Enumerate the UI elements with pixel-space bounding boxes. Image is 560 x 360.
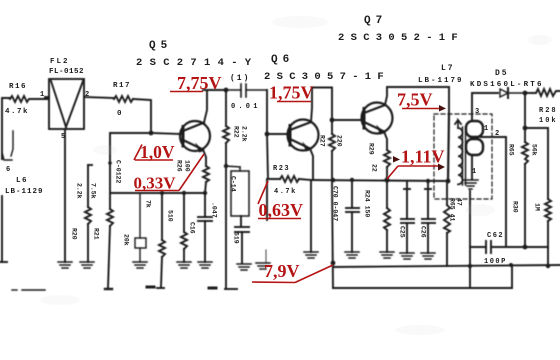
svg-text:C25: C25 xyxy=(399,226,406,238)
node Q6 base junction xyxy=(265,132,270,137)
svg-text:C-14: C-14 xyxy=(230,176,237,192)
svg-text:KDS160L-RT6: KDS160L-RT6 xyxy=(470,81,544,89)
wire node B to Q5 base xyxy=(151,133,181,134)
resistor R26 emitter xyxy=(203,166,209,193)
ceramic filter FL2 xyxy=(45,79,84,129)
svg-text:.047: .047 xyxy=(211,202,218,218)
svg-text:2SC2714-Y: 2SC2714-Y xyxy=(136,57,258,69)
wire node B left drop xyxy=(110,133,151,209)
svg-text:Q7: Q7 xyxy=(364,15,387,27)
node tap junction xyxy=(108,161,112,165)
wire Q6 base column down xyxy=(266,179,267,262)
wire R23 branch xyxy=(267,134,280,179)
svg-text:2: 2 xyxy=(495,130,499,138)
svg-text:1: 1 xyxy=(472,168,476,176)
svg-text:100P: 100P xyxy=(484,258,507,266)
wire to Q7 base xyxy=(332,119,363,121)
return rail lower xyxy=(333,266,512,288)
svg-text:R27: R27 xyxy=(319,135,326,147)
svg-text:510: 510 xyxy=(167,210,174,222)
svg-text:2.2k: 2.2k xyxy=(241,126,248,142)
svg-text:2: 2 xyxy=(85,91,89,99)
svg-text:R65 41: R65 41 xyxy=(449,198,456,222)
ground L7 pin1 xyxy=(463,180,478,189)
svg-text:3: 3 xyxy=(475,108,479,116)
svg-text:7k: 7k xyxy=(145,200,152,208)
resistor R17 xyxy=(114,96,133,102)
inductor L7 secondary winding xyxy=(466,121,483,155)
svg-text:6: 6 xyxy=(6,166,10,174)
wire L7 primary feed xyxy=(448,114,449,180)
node rail junctions xyxy=(331,261,336,266)
supply rail 7.9V xyxy=(333,265,560,267)
svg-text:0: 0 xyxy=(117,110,122,118)
svg-text:R24 150: R24 150 xyxy=(364,190,371,217)
svg-text:Q5: Q5 xyxy=(149,40,172,52)
wire input left xyxy=(2,98,10,159)
svg-text:5: 5 xyxy=(61,133,65,141)
resistor R32 56k xyxy=(522,128,528,247)
wire filter pin2 to R17 xyxy=(84,97,114,98)
node 1.75V annotation xyxy=(269,83,314,103)
svg-text:7,75V: 7,75V xyxy=(177,73,222,93)
capacitor C20 branch xyxy=(346,181,359,252)
svg-text:C-0122: C-0122 xyxy=(115,160,122,184)
wire stub left dashed xyxy=(2,131,13,160)
svg-text:4.7k: 4.7k xyxy=(5,108,29,116)
node 7.75V annotation xyxy=(170,73,222,93)
ground C20 xyxy=(345,252,359,258)
node 7.9V annotation xyxy=(252,261,333,283)
capacitor C62 xyxy=(470,241,548,253)
wire Q7 emitter xyxy=(384,132,387,151)
svg-text:0.01: 0.01 xyxy=(231,103,261,111)
bias wire y193 xyxy=(110,192,206,194)
wire C20 column top xyxy=(333,180,335,181)
svg-text:R65: R65 xyxy=(508,144,515,156)
svg-text:FL2: FL2 xyxy=(50,58,70,66)
svg-text:R21: R21 xyxy=(93,228,100,240)
transistor Q5 xyxy=(180,121,210,153)
svg-text:220: 220 xyxy=(336,135,343,147)
svg-text:1,11V: 1,11V xyxy=(401,147,445,167)
ground FL2 xyxy=(58,262,72,268)
wire Q5 emitter xyxy=(203,150,206,167)
wire left edge lower xyxy=(0,196,7,262)
ground R25 xyxy=(177,262,191,268)
node Q6-Q7 coupling xyxy=(330,118,335,123)
svg-text:1: 1 xyxy=(484,125,488,133)
svg-text:C16: C16 xyxy=(189,222,196,234)
resistor mid branch xyxy=(157,193,165,288)
svg-text:LB-1129: LB-1129 xyxy=(5,188,44,196)
svg-text:Q6: Q6 xyxy=(271,54,294,66)
svg-text:0,63V: 0,63V xyxy=(259,200,304,220)
node y193 junctions xyxy=(160,191,164,195)
wire R17 to node B xyxy=(133,99,151,132)
inductor L7 primary winding xyxy=(455,120,463,184)
wire C11 to Q6 base drop xyxy=(266,90,268,133)
node 1.0V annotation xyxy=(134,142,175,162)
wire L7 pin3 to diode xyxy=(472,93,498,121)
svg-text:2SC3052-1F: 2SC3052-1F xyxy=(338,32,464,44)
capacitor C16 branch xyxy=(198,193,212,262)
wire stub tick A xyxy=(147,286,154,289)
wire D5 node down xyxy=(524,93,526,128)
ground Q6 emitter xyxy=(304,252,318,258)
ground trimmer xyxy=(133,262,147,268)
wire Q6 collector xyxy=(311,88,332,123)
node divider junction xyxy=(523,126,528,131)
capacitor C11 xyxy=(226,84,267,97)
svg-text:47: 47 xyxy=(456,198,463,206)
svg-text:2SC3057-1F: 2SC3057-1F xyxy=(264,71,390,83)
svg-text:R30: R30 xyxy=(512,201,519,213)
svg-text:4.7k: 4.7k xyxy=(274,188,297,196)
svg-text:7.5k: 7.5k xyxy=(90,183,97,199)
svg-text:R28: R28 xyxy=(539,107,558,115)
node rail dots xyxy=(350,178,354,182)
svg-text:20k: 20k xyxy=(123,234,130,246)
trimmer box branch xyxy=(135,193,146,262)
resistor R22 xyxy=(223,90,229,166)
red annotations xyxy=(134,73,447,283)
black schematic ink xyxy=(0,79,560,290)
capacitor C26 branch xyxy=(422,181,435,253)
node C11 junction xyxy=(224,88,229,93)
svg-text:LB-1179: LB-1179 xyxy=(418,77,464,85)
capacitor C19 xyxy=(235,216,249,263)
resistor R23 xyxy=(280,176,311,182)
wire L7 pin2 xyxy=(481,137,506,247)
wire emitter ground branch xyxy=(310,181,312,252)
svg-text:R29: R29 xyxy=(368,143,375,155)
svg-text:10k: 10k xyxy=(539,117,558,125)
transformer L7 core xyxy=(463,127,466,185)
resistor R25 branch xyxy=(181,193,187,262)
svg-text:R20: R20 xyxy=(71,228,78,240)
ground R20 xyxy=(80,262,94,268)
black text labels xyxy=(5,15,558,266)
capacitor C25 branch xyxy=(401,181,414,253)
svg-text:0,33V: 0,33V xyxy=(134,174,177,193)
svg-text:C62: C62 xyxy=(487,232,504,240)
wire Q6 emitter xyxy=(310,149,313,181)
resistor R29 xyxy=(384,150,390,179)
svg-text:56k: 56k xyxy=(531,144,538,156)
wire stub tick B xyxy=(209,287,216,290)
svg-text:7,5V: 7,5V xyxy=(397,90,433,110)
node D5 junction xyxy=(523,91,528,96)
ground C19 xyxy=(237,264,251,270)
svg-text:C70 0-047: C70 0-047 xyxy=(332,186,339,221)
wire branch to R30 xyxy=(525,128,548,199)
wire R22 down long xyxy=(225,166,237,289)
svg-text:1M: 1M xyxy=(534,203,541,211)
svg-text:C26: C26 xyxy=(420,226,427,238)
wire Q7 collector xyxy=(385,87,449,114)
resistor R28 xyxy=(525,89,560,96)
node R22 bottom junction xyxy=(224,164,228,168)
node 0.63V annotation xyxy=(258,181,303,220)
node 7.5V annotation xyxy=(397,90,446,112)
svg-text:R26: R26 xyxy=(176,160,183,172)
transistor Q7 xyxy=(362,103,393,135)
wire to Q6 base xyxy=(267,133,288,135)
wire top rail Q5 xyxy=(203,89,226,91)
wire Q5 collector xyxy=(204,91,207,123)
node C62 junction xyxy=(523,245,528,250)
svg-text:519: 519 xyxy=(233,232,240,244)
transistor Q6 xyxy=(288,120,319,152)
svg-text:R23: R23 xyxy=(273,165,290,173)
svg-text:R22: R22 xyxy=(233,126,240,138)
ground C16 xyxy=(198,262,212,268)
svg-text:L7: L7 xyxy=(441,64,455,73)
svg-text:100: 100 xyxy=(184,160,191,172)
diode D5 xyxy=(500,88,524,98)
transformer L7 dashed box xyxy=(434,114,492,199)
node Q7 emitter junction xyxy=(384,177,389,182)
ground C26 xyxy=(421,253,435,259)
resistor R27 xyxy=(329,120,335,179)
svg-text:(1): (1) xyxy=(230,74,250,83)
wire 7.9V feed column xyxy=(332,181,333,288)
resistor R30 xyxy=(545,199,551,266)
svg-text:7,9V: 7,9V xyxy=(264,261,300,281)
wire L7 pin1 down xyxy=(470,156,472,288)
svg-text:L6: L6 xyxy=(16,177,28,185)
resistor R21 branch xyxy=(105,209,113,289)
filter FL2 pin3 wire xyxy=(64,129,66,262)
resistor R24 branch xyxy=(384,181,390,252)
ground C25 xyxy=(400,253,414,259)
svg-text:FL-0152: FL-0152 xyxy=(49,68,84,76)
node 1.11V annotation xyxy=(387,147,445,180)
svg-text:1,75V: 1,75V xyxy=(269,83,314,103)
svg-text:D5: D5 xyxy=(495,69,509,78)
resistor R20 branch xyxy=(85,165,92,262)
svg-text:R17: R17 xyxy=(113,82,131,90)
svg-text:R16: R16 xyxy=(9,83,27,91)
resistor R65 branch xyxy=(444,181,450,266)
wire dash bottom left xyxy=(12,289,45,291)
node 0.33V annotation xyxy=(134,154,205,193)
node B junction xyxy=(149,131,154,136)
ground R24 xyxy=(380,252,394,258)
svg-text:2.2k: 2.2k xyxy=(76,183,83,199)
svg-text:22: 22 xyxy=(371,164,378,172)
svg-text:1: 1 xyxy=(40,91,44,99)
crystal box C14 xyxy=(226,166,249,216)
ground mid column xyxy=(256,263,270,269)
wire bias rail y180 xyxy=(311,180,449,181)
svg-text:1,0V: 1,0V xyxy=(140,142,175,162)
resistor R16 xyxy=(10,96,49,102)
